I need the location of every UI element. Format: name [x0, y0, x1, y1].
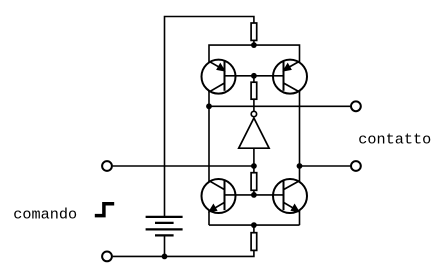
node battery- / bottom return [162, 254, 168, 260]
resistor R1 [251, 23, 257, 40]
node right column / contact [297, 163, 303, 169]
node inverter input [251, 163, 257, 169]
wire right contact tap [300, 165, 351, 167]
node left column / output [206, 103, 212, 109]
wire R4 column and bottom return [113, 225, 254, 256]
wire R2 column [253, 76, 255, 111]
resistor R2 [251, 82, 257, 99]
wire top base rail [225, 75, 284, 77]
terminal contact top [351, 101, 361, 111]
transistor Q4 (NPN bottom-right) [273, 179, 307, 213]
terminal command bottom [102, 252, 112, 262]
terminal contact bottom [351, 161, 361, 171]
wire bottom emitter rail [209, 224, 300, 226]
wire R1 to top rail node [253, 41, 255, 45]
wire output line [209, 105, 350, 107]
inverter U1 bubble [251, 111, 256, 116]
node base rail / R2 [251, 73, 257, 79]
battery B1 [146, 217, 183, 236]
wire battery+ column and top supply to R1 [165, 17, 254, 217]
wire left terminal to inverter input [113, 165, 254, 167]
resistor R4 [251, 233, 257, 251]
wire battery- stub [164, 235, 166, 256]
node emitter rail / R4 [251, 222, 257, 228]
node bottom base rail / R3 [251, 192, 257, 198]
step waveform symbol [95, 204, 114, 216]
transistor Q1 (PNP top-left) [202, 60, 236, 94]
transistor Q2 (PNP top-right) [273, 60, 307, 94]
resistor R3 [251, 173, 257, 191]
wire inverter input column [253, 148, 255, 166]
wire top emitter rail and left/right columns [209, 45, 300, 225]
node top rail / R1 [251, 42, 257, 48]
terminal command top [102, 161, 112, 171]
transistor Q3 (NPN bottom-left) [202, 179, 236, 213]
inverter U1 triangle [239, 118, 269, 148]
wire bottom base rail [225, 194, 284, 196]
svg-text:contatto: contatto [358, 131, 431, 149]
svg-text:comando: comando [13, 206, 77, 224]
wire R3 column [253, 166, 255, 195]
